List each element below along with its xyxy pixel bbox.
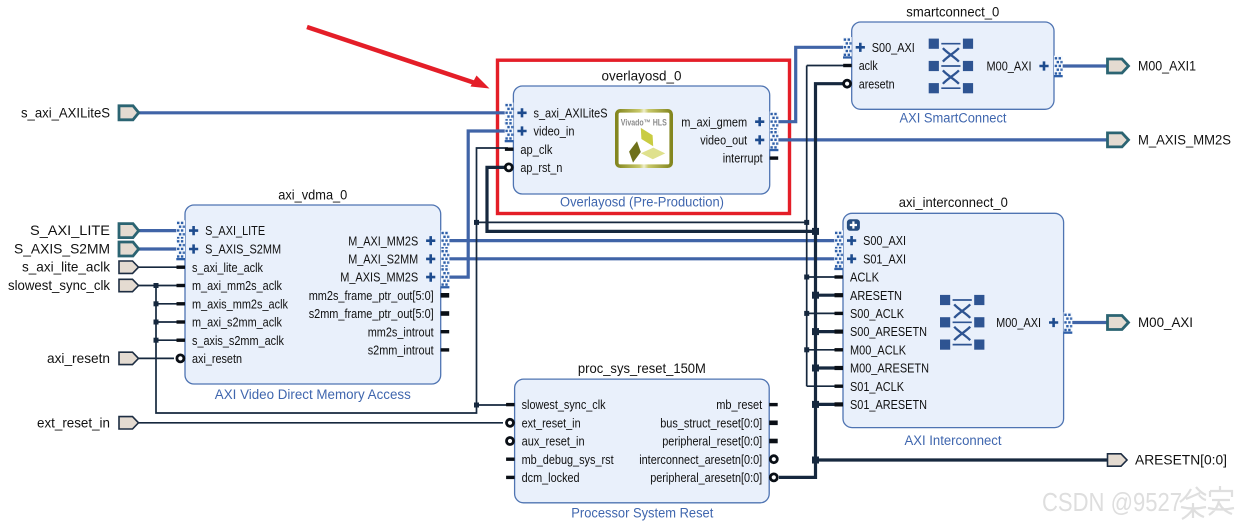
svg-text:peripheral_aresetn[0:0]: peripheral_aresetn[0:0] bbox=[650, 470, 762, 485]
pin proc_sys_reset_150M dcm_locked bbox=[506, 470, 579, 485]
svg-text:S_AXIS_S2MM: S_AXIS_S2MM bbox=[14, 241, 110, 257]
pin axi_vdma_0 m_axi_mm2s_aclk bbox=[177, 278, 283, 293]
svg-text:axi_resetn: axi_resetn bbox=[192, 351, 242, 366]
block axi_vdma_0 bbox=[185, 205, 441, 384]
pin overlayosd_0 interrupt bbox=[723, 151, 779, 166]
wire reset net trunk peripheral_aresetn bbox=[779, 84, 1109, 478]
svg-text:m_axi_gmem: m_axi_gmem bbox=[681, 114, 747, 129]
block overlayosd_0 bbox=[513, 86, 769, 194]
svg-text:axi_resetn: axi_resetn bbox=[47, 350, 110, 366]
pin axi_interconnect_0 S01_ACLK bbox=[835, 379, 905, 394]
port axi_resetn bbox=[47, 350, 139, 366]
pin axi_vdma_0 S_AXIS_S2MM bbox=[176, 239, 281, 261]
svg-text:AXI SmartConnect: AXI SmartConnect bbox=[900, 111, 1007, 126]
block axi_interconnect_0 bbox=[843, 213, 1064, 427]
svg-text:S00_AXI: S00_AXI bbox=[872, 40, 915, 55]
svg-text:S00_AXI: S00_AXI bbox=[863, 233, 906, 248]
wire reset net ap_rst_n branch bbox=[487, 167, 816, 231]
svg-text:bus_struct_reset[0:0]: bus_struct_reset[0:0] bbox=[660, 415, 762, 430]
svg-text:CSDN @9527: CSDN @9527 bbox=[1042, 487, 1182, 517]
block smartconnect_0 bbox=[852, 22, 1054, 109]
port s_axi_lite_aclk bbox=[22, 259, 139, 275]
svg-text:m_axis_mm2s_aclk: m_axis_mm2s_aclk bbox=[192, 296, 288, 311]
svg-text:s_axi_AXILiteS: s_axi_AXILiteS bbox=[534, 105, 608, 120]
svg-text:s2mm_frame_ptr_out[5:0]: s2mm_frame_ptr_out[5:0] bbox=[309, 306, 434, 321]
pin overlayosd_0 ap_clk bbox=[505, 142, 553, 157]
svg-text:M00_ACLK: M00_ACLK bbox=[850, 342, 906, 357]
port S_AXI_LITE bbox=[30, 222, 139, 238]
Vivado HLS logo bbox=[617, 111, 671, 166]
pin axi_interconnect_0 S00_ACLK bbox=[835, 306, 905, 321]
pin axi_interconnect_0 M00_ARESETN bbox=[835, 361, 930, 376]
port ARESETN[0:0] bbox=[1108, 452, 1228, 468]
svg-text:interconnect_aresetn[0:0]: interconnect_aresetn[0:0] bbox=[639, 452, 762, 467]
svg-text:S01_ACLK: S01_ACLK bbox=[850, 379, 904, 394]
svg-text:Overlayosd (Pre-Production): Overlayosd (Pre-Production) bbox=[560, 194, 724, 209]
wire clock net branch to smartconnect aclk and interconnect clocks bbox=[477, 66, 846, 387]
svg-text:video_in: video_in bbox=[534, 124, 575, 139]
svg-text:M00_AXI: M00_AXI bbox=[1138, 314, 1193, 330]
watermark Chinese glyphs bbox=[1180, 486, 1234, 519]
svg-text:axi_vdma_0: axi_vdma_0 bbox=[278, 187, 347, 203]
wire S_AXIS_S2MM port to axi_vdma_0 bbox=[137, 247, 178, 250]
svg-text:m_axi_mm2s_aclk: m_axi_mm2s_aclk bbox=[192, 278, 282, 293]
svg-text:M_AXIS_MM2S: M_AXIS_MM2S bbox=[340, 270, 418, 285]
svg-text:S01_ARESETN: S01_ARESETN bbox=[850, 397, 927, 412]
svg-text:M00_AXI1: M00_AXI1 bbox=[1138, 58, 1196, 74]
junction clock net mid branches bbox=[474, 220, 479, 225]
svg-text:interrupt: interrupt bbox=[723, 151, 763, 166]
port S_AXIS_S2MM bbox=[14, 241, 139, 257]
svg-text:S_AXI_LITE: S_AXI_LITE bbox=[30, 222, 110, 238]
port M00_AXI1 bbox=[1108, 58, 1197, 74]
svg-text:axi_interconnect_0: axi_interconnect_0 bbox=[899, 194, 1008, 210]
svg-text:video_out: video_out bbox=[700, 133, 747, 148]
wire M_AXIS_MM2S to overlayosd video_in bbox=[449, 131, 508, 277]
svg-text:smartconnect_0: smartconnect_0 bbox=[906, 4, 999, 20]
svg-text:Processor System Reset: Processor System Reset bbox=[571, 506, 713, 521]
svg-text:ARESETN: ARESETN bbox=[850, 288, 902, 303]
svg-text:mb_debug_sys_rst: mb_debug_sys_rst bbox=[522, 452, 614, 467]
svg-text:M_AXIS_MM2S: M_AXIS_MM2S bbox=[1138, 131, 1231, 147]
port M00_AXI bbox=[1108, 314, 1194, 330]
svg-text:M_AXI_MM2S: M_AXI_MM2S bbox=[348, 233, 418, 248]
svg-text:AXI Interconnect: AXI Interconnect bbox=[905, 433, 1002, 448]
wire M_AXI_S2MM to interconnect S01_AXI bbox=[449, 257, 836, 260]
svg-text:dcm_locked: dcm_locked bbox=[522, 470, 580, 485]
pin proc_sys_reset_150M mb_debug_sys_rst bbox=[506, 452, 614, 467]
svg-text:ap_clk: ap_clk bbox=[520, 142, 552, 157]
pin axi_vdma_0 s_axi_lite_aclk bbox=[177, 260, 264, 275]
pin overlayosd_0 m_axi_gmem bbox=[681, 111, 778, 133]
svg-text:aresetn: aresetn bbox=[859, 76, 895, 91]
svg-text:s_axis_s2mm_aclk: s_axis_s2mm_aclk bbox=[192, 333, 284, 348]
svg-text:ap_rst_n: ap_rst_n bbox=[520, 160, 562, 175]
pin axi_interconnect_0 S00_ARESETN bbox=[835, 324, 928, 339]
svg-text:proc_sys_reset_150M: proc_sys_reset_150M bbox=[578, 360, 706, 376]
svg-text:aux_reset_in: aux_reset_in bbox=[522, 434, 585, 449]
svg-text:s_axi_lite_aclk: s_axi_lite_aclk bbox=[192, 260, 263, 275]
pin axi_interconnect_0 M00_ACLK bbox=[835, 342, 907, 357]
wire overlayosd m_axi_gmem to smartconnect S00_AXI bbox=[776, 47, 845, 121]
pin axi_vdma_0 mm2s_introut bbox=[368, 324, 450, 339]
wire s_axi_AXILiteS port to overlayosd bbox=[138, 111, 508, 114]
pin axi_vdma_0 axi_resetn bbox=[177, 351, 242, 366]
svg-text:overlayosd_0: overlayosd_0 bbox=[602, 68, 682, 84]
svg-text:AXI Video Direct Memory Access: AXI Video Direct Memory Access bbox=[215, 387, 411, 402]
svg-text:S01_AXI: S01_AXI bbox=[863, 251, 906, 266]
svg-text:ACLK: ACLK bbox=[850, 270, 879, 285]
svg-text:slowest_sync_clk: slowest_sync_clk bbox=[522, 397, 606, 412]
pin proc_sys_reset_150M bus_struct_reset[0:0] bbox=[660, 415, 778, 430]
pin smartconnect_0 aresetn bbox=[844, 76, 895, 91]
pin smartconnect_0 S00_AXI bbox=[843, 37, 915, 59]
pin proc_sys_reset_150M peripheral_reset[0:0] bbox=[662, 434, 778, 449]
pin axi_vdma_0 s2mm_frame_ptr_out[5:0] bbox=[309, 306, 450, 321]
wire M_AXI_MM2S to interconnect S00_AXI bbox=[449, 239, 836, 242]
block proc_sys_reset_150M bbox=[515, 379, 770, 503]
svg-text:S00_ACLK: S00_ACLK bbox=[850, 306, 904, 321]
pin axi_vdma_0 mm2s_frame_ptr_out[5:0] bbox=[309, 288, 450, 303]
expand badge on axi_interconnect_0 bbox=[847, 219, 860, 231]
svg-text:s_axi_lite_aclk: s_axi_lite_aclk bbox=[22, 259, 111, 275]
port s_axi_AXILiteS bbox=[21, 105, 139, 121]
pin proc_sys_reset_150M interconnect_aresetn[0:0] bbox=[639, 452, 777, 467]
pin overlayosd_0 video_in bbox=[505, 121, 575, 143]
pin smartconnect_0 aclk bbox=[843, 58, 878, 73]
svg-text:s_axi_AXILiteS: s_axi_AXILiteS bbox=[21, 105, 110, 121]
svg-text:Vivado™ HLS: Vivado™ HLS bbox=[621, 117, 667, 127]
svg-text:ext_reset_in: ext_reset_in bbox=[522, 415, 581, 430]
junction clock net right column bbox=[804, 220, 809, 225]
red annotation arrow bbox=[307, 27, 490, 89]
pin axi_interconnect_0 M00_AXI bbox=[996, 312, 1072, 334]
wire s_axi_lite_aclk bbox=[137, 266, 180, 268]
pin proc_sys_reset_150M slowest_sync_clk bbox=[506, 397, 606, 412]
port ext_reset_in bbox=[37, 414, 139, 430]
pin proc_sys_reset_150M aux_reset_in bbox=[507, 434, 585, 449]
pin axi_interconnect_0 ACLK bbox=[835, 270, 880, 285]
svg-text:aclk: aclk bbox=[859, 58, 878, 73]
wire ext_reset_in port to proc_sys_reset bbox=[137, 422, 503, 424]
pin axi_vdma_0 M_AXI_MM2S bbox=[348, 230, 449, 252]
svg-text:mb_reset: mb_reset bbox=[716, 397, 762, 412]
pin axi_interconnect_0 ARESETN bbox=[835, 288, 903, 303]
wire overlayosd video_out to M_AXIS_MM2S port bbox=[776, 138, 1109, 141]
port M_AXIS_MM2S bbox=[1108, 131, 1232, 147]
svg-text:M00_ARESETN: M00_ARESETN bbox=[850, 361, 929, 376]
pin proc_sys_reset_150M peripheral_aresetn[0:0] bbox=[650, 470, 777, 485]
pin proc_sys_reset_150M mb_reset bbox=[716, 397, 778, 412]
pin axi_vdma_0 M_AXI_S2MM bbox=[348, 249, 449, 271]
pin axi_vdma_0 m_axi_s2mm_aclk bbox=[177, 315, 283, 330]
svg-text:ext_reset_in: ext_reset_in bbox=[37, 414, 110, 430]
icon interconnect crossbar bbox=[940, 295, 984, 350]
svg-text:S_AXI_LITE: S_AXI_LITE bbox=[205, 223, 265, 238]
pin axi_interconnect_0 S00_AXI bbox=[834, 230, 906, 252]
pin axi_vdma_0 M_AXIS_MM2S bbox=[340, 267, 449, 289]
pin axi_vdma_0 m_axis_mm2s_aclk bbox=[177, 296, 289, 311]
junction reset net column bbox=[812, 228, 819, 235]
svg-text:slowest_sync_clk: slowest_sync_clk bbox=[8, 277, 111, 293]
pin smartconnect_0 M00_AXI bbox=[987, 56, 1063, 78]
red highlight rectangle around overlayosd_0 bbox=[498, 60, 790, 213]
wire S_AXI_LITE port to axi_vdma_0 bbox=[137, 229, 178, 232]
pin overlayosd_0 ap_rst_n bbox=[505, 160, 562, 175]
pin overlayosd_0 s_axi_AXILiteS bbox=[505, 103, 608, 125]
wire smartconnect M00_AXI to port M00_AXI1 bbox=[1061, 64, 1109, 67]
svg-text:M_AXI_S2MM: M_AXI_S2MM bbox=[348, 252, 418, 267]
pin axi_vdma_0 S_AXI_LITE bbox=[176, 220, 265, 242]
pin axi_interconnect_0 S01_AXI bbox=[834, 249, 906, 271]
pin axi_vdma_0 s2mm_introut bbox=[368, 343, 450, 358]
svg-text:S00_ARESETN: S00_ARESETN bbox=[850, 324, 927, 339]
svg-text:S_AXIS_S2MM: S_AXIS_S2MM bbox=[205, 242, 281, 257]
svg-text:mm2s_frame_ptr_out[5:0]: mm2s_frame_ptr_out[5:0] bbox=[309, 288, 434, 303]
icon smartconnect crossbar bbox=[929, 39, 973, 94]
pin axi_interconnect_0 S01_ARESETN bbox=[835, 397, 928, 412]
wire interconnect M00_AXI to port M00_AXI bbox=[1071, 321, 1109, 324]
svg-text:mm2s_introut: mm2s_introut bbox=[368, 324, 434, 339]
pin proc_sys_reset_150M ext_reset_in bbox=[507, 415, 581, 430]
svg-text:M00_AXI: M00_AXI bbox=[996, 315, 1041, 330]
svg-text:peripheral_reset[0:0]: peripheral_reset[0:0] bbox=[662, 434, 762, 449]
wire axi_resetn port to vdma bbox=[137, 357, 174, 359]
svg-text:s2mm_introut: s2mm_introut bbox=[368, 343, 434, 358]
svg-text:M00_AXI: M00_AXI bbox=[987, 59, 1032, 74]
pin overlayosd_0 video_out bbox=[700, 130, 778, 152]
pin axi_vdma_0 s_axis_s2mm_aclk bbox=[177, 333, 285, 348]
wire clock net vdma aclk branches bbox=[156, 304, 180, 340]
svg-text:ARESETN[0:0]: ARESETN[0:0] bbox=[1135, 452, 1227, 468]
svg-text:m_axi_s2mm_aclk: m_axi_s2mm_aclk bbox=[192, 315, 282, 330]
wire clock net slowest_sync_clk trunk bbox=[137, 148, 508, 413]
junction clock net at slowest_sync_clk branches bbox=[154, 283, 159, 288]
port slowest_sync_clk bbox=[8, 277, 139, 293]
